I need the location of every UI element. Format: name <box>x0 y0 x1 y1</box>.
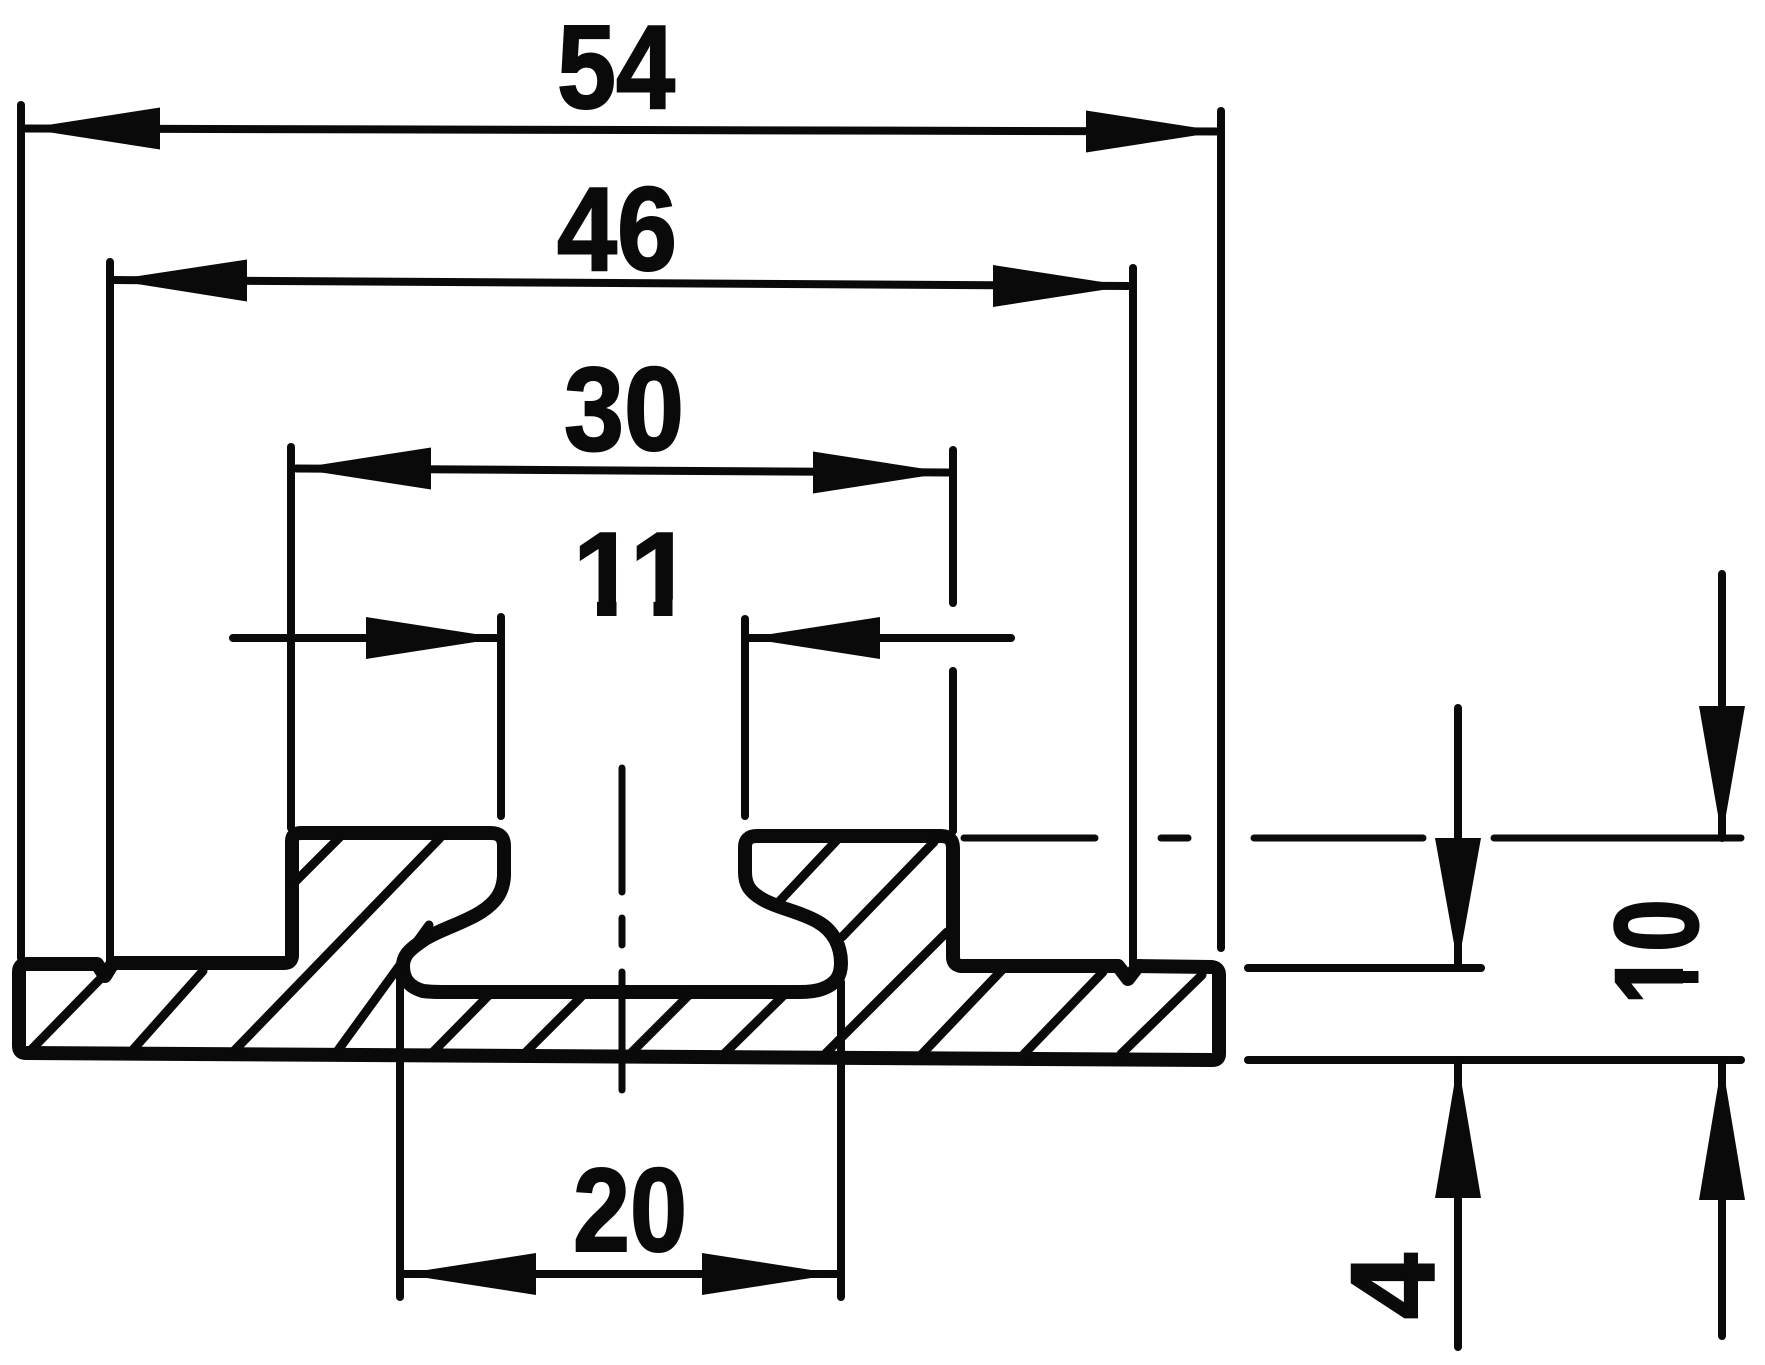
hatch line <box>922 970 1002 1054</box>
arrowhead 20 left <box>401 1253 536 1295</box>
hatch line <box>130 971 203 1053</box>
center line dash-dot vertical <box>619 768 626 1090</box>
arrowhead 30 right <box>813 452 948 494</box>
extension line plate top right <box>1248 964 1481 972</box>
hatch line <box>431 991 493 1054</box>
arrowhead 46 left <box>112 260 247 302</box>
hatch line <box>1024 972 1103 1054</box>
svg-text:54: 54 <box>557 1 675 134</box>
svg-text:11: 11 <box>573 508 693 641</box>
arrowhead 54 left <box>25 108 160 150</box>
svg-text:4: 4 <box>1326 1253 1459 1319</box>
foot serif removal patches for digit 1 of 11 <box>575 600 597 619</box>
hatch line <box>28 971 108 1053</box>
extension line 30 right lower <box>949 671 957 831</box>
extension line 30 right upper <box>949 450 957 603</box>
hatch line <box>630 991 693 1054</box>
arrowhead 54 right <box>1086 111 1221 153</box>
dimension line 46 <box>112 280 1128 286</box>
dash-dot level line at block top right side <box>964 835 1741 842</box>
dimension line 11 right tail <box>745 634 1011 642</box>
hatch line <box>826 932 947 1053</box>
dimension line 11 left tail <box>233 634 501 642</box>
extension line 46 left <box>106 262 114 965</box>
hatch line <box>232 838 440 1053</box>
hatch line <box>336 925 429 1053</box>
arrowhead 11 left pointing right <box>366 617 501 659</box>
hatch line <box>295 836 341 882</box>
hatch line <box>842 842 934 937</box>
arrowhead 11 right pointing left <box>745 617 880 659</box>
profile outline of T-slot rail cross-section <box>19 833 1219 1060</box>
arrowhead 4 top pointing down <box>1435 838 1481 966</box>
hatch line <box>724 993 786 1054</box>
extension line plate bottom right <box>1248 1056 1741 1064</box>
svg-text:30: 30 <box>564 343 684 476</box>
arrowhead 20 right <box>702 1253 837 1295</box>
hatch line <box>1121 975 1202 1054</box>
foot serif removal patches for digit 1 of 10 <box>1683 948 1704 971</box>
extension line 11 right <box>741 619 749 816</box>
extension line 54 right <box>1217 111 1225 948</box>
dimension line 10 vertical <box>1718 574 1726 1336</box>
extension line 54 left <box>17 105 25 958</box>
arrowhead 4 bottom pointing up <box>1435 1062 1481 1198</box>
extension line 11 left <box>497 617 505 816</box>
hatch line <box>524 991 587 1054</box>
dimension line 30 <box>296 469 948 473</box>
svg-text:20: 20 <box>573 1144 687 1277</box>
dimension line 54 <box>25 129 1221 132</box>
hatch line <box>775 840 837 906</box>
arrowhead 10 top pointing down <box>1699 706 1745 838</box>
arrowhead 10 bottom pointing up <box>1699 1062 1745 1200</box>
extension line 20 right <box>837 982 845 1297</box>
extension line 20 left <box>396 978 404 1297</box>
dimension line 4 vertical <box>1454 708 1462 1347</box>
arrowhead 30 left <box>296 448 431 490</box>
svg-text:46: 46 <box>557 163 677 296</box>
dimension line 20 <box>401 1270 837 1278</box>
extension line 46 right <box>1129 268 1137 968</box>
arrowhead 46 right <box>993 265 1128 307</box>
extension line 30 left <box>287 447 295 828</box>
